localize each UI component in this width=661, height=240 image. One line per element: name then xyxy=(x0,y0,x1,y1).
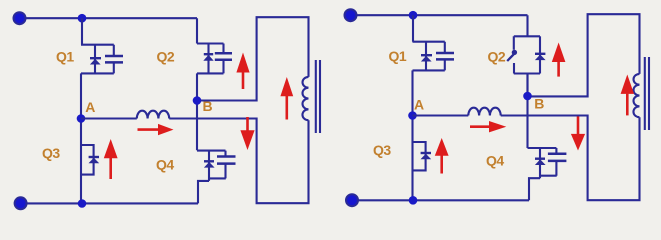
current arrow through primary (up) xyxy=(285,96,288,120)
wire Q2 source leg through node B to Q4 (right circuit) xyxy=(526,74,528,149)
wire top rail xyxy=(25,17,197,19)
wire Q2 source leg through node B to Q4 xyxy=(196,73,198,150)
wire node B to primary top (right circuit) xyxy=(528,14,640,96)
wire bottom rail xyxy=(26,202,198,204)
junction dot on top rail (Q1 drain) xyxy=(78,14,87,23)
capacitor C4 (Q4 output capacitance) xyxy=(224,151,226,179)
wire node A to inductor (right circuit) xyxy=(413,114,469,116)
wire inductor to primary bottom (right circuit) xyxy=(501,116,640,201)
wire top rail right circuit xyxy=(356,14,528,16)
node A xyxy=(77,114,86,123)
terminal P3 (top left input, right circuit) xyxy=(345,9,357,21)
diode D1 (Q1 body diode, right circuit) xyxy=(425,42,427,71)
svg-text:Q3: Q3 xyxy=(373,142,391,158)
current arrow through Q2 (up) xyxy=(242,72,245,89)
switch Q4 body (right circuit) xyxy=(528,148,557,176)
inductor Lr (right circuit) xyxy=(468,108,500,116)
switch Q2 body xyxy=(197,18,224,73)
svg-text:Q1: Q1 xyxy=(389,48,407,64)
diode D3 (Q3 body diode) xyxy=(89,156,99,158)
node A (right circuit) xyxy=(408,111,417,120)
transformer core (right circuit) xyxy=(645,57,649,130)
wire Q1 drain leg xyxy=(81,18,83,45)
switch Q2 blade xyxy=(507,54,513,61)
diode D4 (Q4 body diode, right circuit) xyxy=(529,148,540,200)
capacitor C4 (right circuit) xyxy=(555,148,557,176)
switch Q1 body (right circuit) xyxy=(413,42,445,71)
wire Q1 source to node A to Q3 to bottom rail xyxy=(80,73,82,203)
wire node A to inductor xyxy=(81,117,137,119)
current arrow through Q3 (up, right circuit) xyxy=(440,156,443,174)
current arrow through Q2 diode (up, right circuit) xyxy=(557,62,560,77)
svg-text:B: B xyxy=(203,98,213,114)
current arrow through Q4 (down) xyxy=(246,117,249,131)
node B (right circuit) xyxy=(523,92,532,101)
diode D1 (Q1 body diode) xyxy=(94,45,96,74)
wire inductor to primary bottom (crossover at B leg) xyxy=(169,119,308,204)
diode D4 (Q4 body diode) xyxy=(198,151,209,204)
inductor Lr (resonant inductor) xyxy=(137,111,169,119)
junction dot on bottom rail (Q3 source) xyxy=(78,199,87,208)
terminal P1 (top left input) xyxy=(14,12,26,24)
current arrows (red), left circuit xyxy=(104,53,293,180)
capacitor C1 (right circuit) xyxy=(444,42,446,71)
switch Q3 body (bracket, right circuit) xyxy=(413,142,426,170)
switch Q4 body xyxy=(197,151,226,179)
current arrow through inductor (right circuit) xyxy=(470,125,490,128)
svg-text:A: A xyxy=(85,99,95,115)
svg-text:A: A xyxy=(414,96,424,112)
svg-text:Q1: Q1 xyxy=(56,49,74,65)
wire bottom rail (right circuit) xyxy=(358,199,530,201)
svg-text:Q2: Q2 xyxy=(488,49,506,65)
current arrows (red), right circuit xyxy=(435,43,634,174)
svg-text:Q3: Q3 xyxy=(42,145,60,161)
terminal P2 (bottom left input) xyxy=(15,197,27,209)
switch Q1 (body: top/bottom bars) xyxy=(81,45,114,74)
terminal P4 (bottom left input, right circuit) xyxy=(346,194,358,206)
wire node B to primary top xyxy=(197,17,309,100)
winding T1 primary (right circuit) xyxy=(633,74,639,117)
switch Q2 (open switch, right circuit) xyxy=(514,15,540,97)
wire Q1 drain leg (right circuit) xyxy=(412,15,414,42)
svg-text:Q4: Q4 xyxy=(156,157,174,173)
capacitor C2 (Q2 output capacitance) xyxy=(222,44,224,74)
current arrow through Q4 (down, right circuit) xyxy=(577,116,580,134)
switch Q2 contact xyxy=(512,50,517,55)
diode D2 (Q2 body diode, right circuit) xyxy=(539,36,541,73)
svg-text:Q2: Q2 xyxy=(157,49,175,65)
diode D3 (Q3 body diode, right circuit) xyxy=(421,152,431,154)
svg-text:B: B xyxy=(534,95,544,111)
current arrow through Q3 (up) xyxy=(109,158,112,179)
current arrow through inductor (right) xyxy=(138,128,159,131)
current arrow through primary (up, right circuit) xyxy=(626,94,629,116)
node B xyxy=(193,96,202,105)
junction dot on bottom rail (right circuit) xyxy=(409,196,418,205)
svg-text:Q4: Q4 xyxy=(486,153,504,169)
switch Q3 body (bracket) xyxy=(81,145,94,175)
junction dot on top rail (Q1 drain, right circuit) xyxy=(409,11,418,20)
wire Q1 source to node A to Q3 to bottom rail (right circuit) xyxy=(411,70,413,200)
capacitor C1 (Q1 output capacitance) xyxy=(113,45,115,74)
diode D2 (Q2 body diode) xyxy=(207,44,209,74)
winding T1 primary xyxy=(302,77,308,120)
transformer T1 core xyxy=(316,60,320,133)
